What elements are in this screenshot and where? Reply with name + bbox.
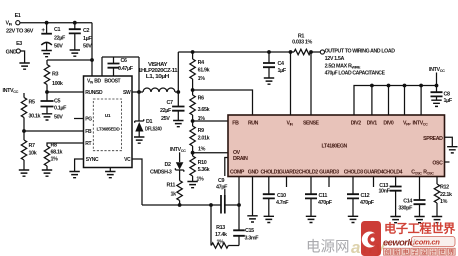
svg-text:1µF: 1µF — [278, 68, 287, 74]
svg-text:3.3mF: 3.3mF — [245, 235, 260, 241]
svg-text:R13: R13 — [216, 225, 225, 231]
svg-text:SPREAD: SPREAD — [423, 136, 443, 142]
svg-text:470µF LOAD CAPACITANCE: 470µF LOAD CAPACITANCE — [325, 70, 386, 76]
svg-text:SYNC: SYNC — [86, 157, 99, 163]
svg-text:1%: 1% — [216, 239, 224, 245]
svg-text:INTVCC: INTVCC — [170, 147, 186, 153]
svg-text:22.1k: 22.1k — [440, 192, 452, 198]
svg-text:CHOLD3: CHOLD3 — [344, 169, 364, 175]
svg-text:C15: C15 — [245, 228, 254, 234]
svg-text:VC: VC — [124, 157, 131, 163]
svg-text:12V 1.5A: 12V 1.5A — [325, 56, 345, 62]
svg-text:22µF: 22µF — [160, 108, 172, 114]
svg-text:1HLP2020CZ-11: 1HLP2020CZ-11 — [138, 68, 177, 74]
svg-text:C9: C9 — [218, 178, 225, 184]
svg-text:C12: C12 — [361, 193, 370, 199]
svg-text:0.47µF: 0.47µF — [118, 66, 134, 72]
svg-text:GUARD3: GUARD3 — [319, 169, 339, 175]
svg-text:R12: R12 — [440, 185, 449, 191]
svg-text:R6: R6 — [198, 95, 205, 101]
svg-text:GND: GND — [248, 169, 259, 175]
svg-text:1%: 1% — [196, 176, 204, 182]
svg-text:C11: C11 — [319, 193, 328, 199]
svg-text:47pF: 47pF — [216, 185, 228, 191]
svg-text:D2: D2 — [165, 162, 172, 168]
svg-text:R10: R10 — [198, 160, 207, 166]
svg-text:0.033 1%: 0.033 1% — [292, 40, 312, 46]
svg-text:0.1µF: 0.1µF — [54, 105, 67, 111]
svg-text:VIN: VIN — [6, 21, 13, 27]
svg-text:DFLS240: DFLS240 — [145, 127, 162, 133]
svg-text:68.1k: 68.1k — [51, 150, 63, 156]
svg-text:COMP: COMP — [230, 169, 245, 175]
svg-text:.com.cn: .com.cn — [413, 237, 440, 246]
svg-text:BD: BD — [94, 78, 101, 84]
svg-text:2.5Ω MAX RWIRE: 2.5Ω MAX RWIRE — [325, 63, 361, 69]
svg-text:C5: C5 — [54, 98, 61, 104]
svg-text:C1: C1 — [54, 27, 61, 33]
svg-text:D1: D1 — [146, 119, 153, 125]
svg-text:FB: FB — [85, 129, 92, 135]
svg-text:1µF: 1µF — [444, 98, 453, 104]
svg-text:E3: E3 — [16, 41, 22, 47]
svg-text:创新电子设计世界: 创新电子设计世界 — [385, 249, 458, 256]
svg-text:470pF: 470pF — [318, 200, 333, 206]
svg-text:SW: SW — [123, 90, 131, 96]
svg-text:100k: 100k — [52, 81, 63, 87]
svg-text:1%: 1% — [198, 76, 206, 82]
svg-text:C7: C7 — [167, 100, 174, 106]
svg-text:2.01k: 2.01k — [198, 136, 210, 142]
svg-text:1k: 1k — [171, 192, 177, 198]
svg-text:C8: C8 — [444, 92, 451, 98]
svg-text:1%: 1% — [198, 116, 206, 122]
svg-text:BOOST: BOOST — [104, 78, 120, 84]
svg-text:470pF: 470pF — [360, 200, 375, 206]
svg-text:FB: FB — [232, 120, 239, 126]
svg-text:30.1k: 30.1k — [29, 114, 41, 120]
svg-text:R7: R7 — [29, 143, 36, 149]
svg-text:22V TO 36V: 22V TO 36V — [6, 29, 34, 35]
svg-text:1%: 1% — [198, 146, 206, 152]
svg-text:1%: 1% — [440, 199, 448, 205]
svg-text:1%: 1% — [51, 157, 59, 163]
svg-text:C4: C4 — [278, 61, 285, 67]
svg-text:PG: PG — [85, 117, 92, 123]
svg-text:CMDSH-3: CMDSH-3 — [150, 170, 172, 176]
svg-text:22µF: 22µF — [54, 36, 66, 42]
svg-text:25V: 25V — [161, 116, 170, 122]
svg-text:LT3685EDD: LT3685EDD — [97, 127, 121, 133]
svg-text:E1: E1 — [15, 13, 21, 19]
svg-text:R9: R9 — [198, 128, 205, 134]
svg-text:DIV0: DIV0 — [383, 120, 394, 126]
svg-text:RUN/SD: RUN/SD — [85, 90, 103, 96]
svg-text:CHOLD4: CHOLD4 — [383, 169, 403, 175]
svg-text:50V: 50V — [83, 44, 92, 50]
svg-text:C14: C14 — [403, 199, 412, 205]
svg-text:4.7nF: 4.7nF — [276, 200, 289, 206]
svg-text:61.9k: 61.9k — [198, 68, 210, 74]
svg-text:17.4k: 17.4k — [215, 232, 227, 238]
svg-text:INTVCC: INTVCC — [429, 67, 445, 73]
svg-text:3.65k: 3.65k — [198, 107, 210, 113]
svg-text:电源网: 电源网 — [306, 239, 350, 256]
svg-text:INTVCC: INTVCC — [3, 88, 19, 94]
svg-text:LT4180EGN: LT4180EGN — [322, 144, 348, 150]
svg-text:R8: R8 — [51, 143, 58, 149]
svg-text:10nF: 10nF — [378, 189, 390, 195]
svg-text:L1, 10µH: L1, 10µH — [146, 74, 170, 80]
svg-text:10k: 10k — [29, 151, 37, 157]
svg-text:C6: C6 — [121, 58, 128, 64]
svg-text:R3: R3 — [52, 72, 59, 78]
svg-text:CHOLD1: CHOLD1 — [260, 169, 280, 175]
svg-text:SENSE: SENSE — [303, 120, 320, 126]
svg-text:C10: C10 — [277, 193, 286, 199]
svg-text:50V: 50V — [54, 43, 63, 49]
svg-text:330pF: 330pF — [398, 205, 413, 211]
svg-text:C2: C2 — [83, 28, 90, 34]
svg-text:R11: R11 — [167, 183, 176, 189]
svg-text:DRAIN: DRAIN — [233, 156, 248, 162]
svg-text:DIV2: DIV2 — [351, 120, 362, 126]
svg-text:RUN: RUN — [248, 120, 259, 126]
svg-text:CHOLD2: CHOLD2 — [299, 169, 319, 175]
svg-text:电子工程世界: 电子工程世界 — [384, 220, 456, 235]
svg-text:50V: 50V — [54, 114, 63, 120]
svg-text:DIV1: DIV1 — [367, 120, 378, 126]
svg-text:RT: RT — [85, 141, 91, 147]
svg-text:GUARD2: GUARD2 — [279, 169, 299, 175]
svg-text:U1: U1 — [105, 113, 111, 119]
svg-text:5.36k: 5.36k — [198, 167, 210, 173]
svg-text:eeworld: eeworld — [383, 238, 415, 248]
svg-text:R5: R5 — [29, 100, 36, 106]
svg-text:GUARD4: GUARD4 — [364, 169, 384, 175]
svg-text:OUTPUT TO WIRING AND LOAD: OUTPUT TO WIRING AND LOAD — [325, 48, 395, 54]
svg-text:OSC: OSC — [432, 160, 443, 166]
svg-text:GND: GND — [6, 49, 17, 55]
svg-text:R4: R4 — [198, 60, 205, 66]
svg-text:1µF: 1µF — [83, 36, 92, 42]
